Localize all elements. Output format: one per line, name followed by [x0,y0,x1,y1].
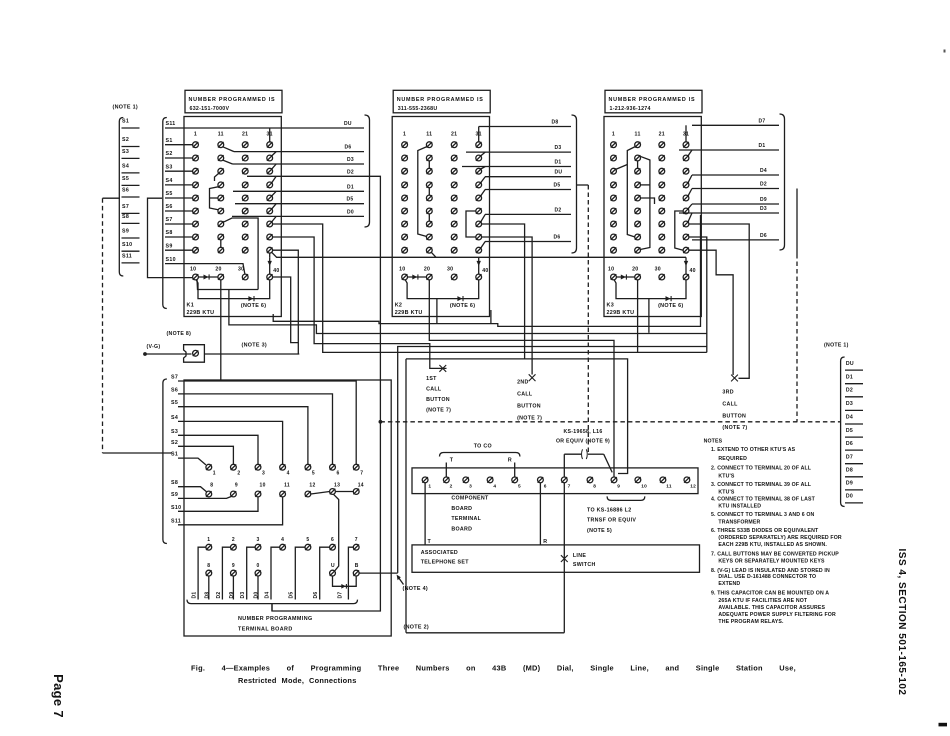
K3 229B KTU outline box [604,117,701,317]
program bus from K1 D2 lead down to underbrace junction [272,176,380,611]
programming board terminals row 8-14 [206,489,359,497]
svg-text:BUTTON: BUTTON [722,413,746,419]
programming board left brace [163,379,167,544]
K1 digit lead lines to brace [165,121,364,216]
svg-text:11: 11 [284,483,290,489]
svg-text:(V-G): (V-G) [147,344,161,350]
K1 row label brace [163,118,167,309]
svg-text:5: 5 [312,471,315,477]
svg-text:D3: D3 [555,145,562,151]
svg-text:S9: S9 [171,492,178,498]
svg-text:21: 21 [242,132,248,138]
svg-text:S8: S8 [166,230,173,236]
svg-text:S3: S3 [171,429,178,435]
svg-text:D2: D2 [555,207,562,213]
svg-text:30: 30 [447,266,453,272]
svg-text:S6: S6 [171,387,178,393]
K3 strap S6 col4 detour to S9 col4 [675,211,683,250]
K2 strap tall bracket col2 rows S1-S8 [418,147,427,237]
wire T from terminal 1 to telephone set [424,483,426,545]
svg-text:D2: D2 [216,592,222,599]
svg-text:2. CONNECT TO TERMINAL 20 OF A: 2. CONNECT TO TERMINAL 20 OF ALL [711,465,812,471]
K1 229B KTU outline box [184,117,281,317]
label 2ND CALL BUTTON NOTE 7 [517,380,542,422]
svg-text:S7: S7 [171,375,178,381]
left solid bus from K1 brace to K1 terminal 10 [148,198,193,277]
line switch X [561,555,568,562]
svg-text:D6: D6 [846,441,853,447]
svg-text:4: 4 [281,537,284,543]
svg-text:D8: D8 [846,468,853,474]
wire K1 terminal 20 down to number programming board [220,280,222,380]
K3 strap S2-S3 col2 vertical [637,161,639,168]
svg-text:THE PROGRAM RELAYS.: THE PROGRAM RELAYS. [718,619,784,625]
programming board S row labels [171,375,181,525]
svg-text:D0: D0 [254,592,260,599]
svg-text:10: 10 [641,484,647,490]
svg-text:14: 14 [358,483,364,489]
svg-text:7: 7 [360,471,363,477]
svg-text:8: 8 [207,563,210,569]
V-G lead with NOTE 8 connector block [143,331,299,362]
K2 strap S6-S7 col2 vertical [428,214,430,221]
svg-text:(NOTE 1): (NOTE 1) [113,105,138,111]
svg-text:DU: DU [344,121,352,127]
svg-text:Fig. 4—Examples of Programming: Fig. 4—Examples of Programming Three Num… [191,664,796,673]
svg-text:2: 2 [237,471,240,477]
wire daisy chain bus upper to K3 S7 col4 [273,215,700,326]
label 1ST CALL BUTTON NOTE 7 [426,376,451,414]
K3 NOTE 6 diode loop from terminal 10 to 40 [614,280,686,299]
K1 bottom terminals 10 20 30 40 [193,274,273,280]
svg-text:3: 3 [257,537,260,543]
svg-text:1. EXTEND TO OTHER KTU'S AS: 1. EXTEND TO OTHER KTU'S AS [711,447,796,453]
svg-text:8: 8 [593,484,596,490]
svg-text:D3: D3 [846,401,853,407]
svg-text:D7: D7 [846,454,853,460]
left dashed bus from S list to S1 wire [103,198,173,453]
svg-text:K1: K1 [187,303,195,309]
KTU unit K1 with programmed number 632-151-7000 [165,90,370,316]
svg-text:7: 7 [568,484,571,490]
K1 wire S9 col4 down to terminal 40 [269,253,271,257]
svg-text:4: 4 [287,471,290,477]
svg-text:S3: S3 [166,164,173,170]
svg-text:D3: D3 [760,206,767,212]
K1 wire terminal 10 to bus at 289.5 [197,280,258,290]
svg-text:265A KTU IF FACILITIES ARE NOT: 265A KTU IF FACILITIES ARE NOT [718,598,808,604]
svg-text:TERMINAL: TERMINAL [451,516,481,522]
svg-text:(NOTE 3): (NOTE 3) [242,343,267,349]
svg-text:D6: D6 [313,592,319,599]
svg-text:D9: D9 [760,197,767,203]
svg-text:S10: S10 [166,257,176,263]
svg-text:0: 0 [257,563,260,569]
programming board terminals row 1-7 [206,464,363,476]
svg-text:11: 11 [218,132,224,138]
svg-text:21: 21 [659,132,665,138]
svg-text:D4: D4 [846,415,853,421]
K1 strap S3 col2 elbow down [215,173,219,181]
svg-text:REQUIRED: REQUIRED [718,456,747,462]
long wire S9 col4 K1 across K2 to K3 terminal 40 arrows [272,252,686,257]
svg-text:NUMBER PROGRAMMING: NUMBER PROGRAMMING [238,616,313,622]
svg-text:K3: K3 [607,303,615,309]
svg-text:(NOTE 7): (NOTE 7) [517,415,542,421]
svg-text:S10: S10 [122,242,132,248]
K2 terminal grid 4 x 9 [402,142,482,253]
svg-text:S6: S6 [166,204,173,210]
K2 digit lead right brace [572,115,577,253]
svg-text:5: 5 [518,484,521,490]
svg-text:D1: D1 [555,160,562,166]
svg-text:TRANSFORMER: TRANSFORMER [718,519,760,525]
wire K3 S8 col4 down to B lead bus [689,237,707,352]
svg-text:KEYS OR SEPARATELY MOUNTED KEY: KEYS OR SEPARATELY MOUNTED KEYS [718,558,825,564]
svg-text:8: 8 [210,483,213,489]
svg-text:D0: D0 [846,494,853,500]
S8-S11 wires to terminals 8-11 [178,487,283,525]
wire K3 NOTE 6 loop descender to daisy bus [648,298,650,333]
svg-text:D2: D2 [760,182,767,188]
svg-text:(NOTE 6): (NOTE 6) [241,303,266,309]
svg-text:21: 21 [451,132,457,138]
svg-text:TO KS-16886 L2: TO KS-16886 L2 [587,508,631,514]
K3 wire terminal 40 riser with arrow from program line [685,257,687,274]
svg-text:R: R [508,457,512,463]
svg-text:311-555-2368U: 311-555-2368U [398,106,438,112]
svg-text:(NOTE 2): (NOTE 2) [404,625,429,631]
dashed capacitor supply line from K2 lead area NOTE 9 [576,184,588,186]
K3 digit lead right brace [780,114,785,250]
K1 strap bracket col2 rows S4-S6 [210,187,219,210]
svg-text:S10: S10 [171,505,181,511]
svg-text:(ORDERED SEPARATELY) ARE REQUI: (ORDERED SEPARATELY) ARE REQUIRED FOR [718,535,842,541]
K2 digit lead lines to brace [462,120,571,242]
svg-text:(NOTE 6): (NOTE 6) [450,303,475,309]
K2 bottom terminals 10 20 30 40 [402,274,482,280]
K1 digit lead right brace [365,115,370,227]
svg-text:D1: D1 [759,143,766,149]
svg-text:EACH 229B KTU, INSTALLED AS SH: EACH 229B KTU, INSTALLED AS SHOWN. [718,542,827,548]
svg-text:12: 12 [690,484,696,490]
wire NOTE 2 line under telephone set [406,632,564,634]
underbrace terminals 9-10 to transformer [607,496,645,500]
svg-text:S7: S7 [122,204,129,210]
svg-text:D2: D2 [846,388,853,394]
svg-text:D7: D7 [759,118,766,124]
K3 bottom terminals 10 20 30 40 [611,274,689,280]
wire line switch from terminal 7 through telephone set [563,483,565,633]
svg-text:ISS 4, SECTION 501-165-102: ISS 4, SECTION 501-165-102 [896,549,907,696]
svg-text:(NOTE 1): (NOTE 1) [824,342,849,348]
K1 terminal grid 4 x 9 [193,142,273,253]
wire from B terminal exits right [359,572,360,574]
svg-text:BOARD: BOARD [451,506,472,512]
svg-text:B: B [355,563,359,569]
svg-text:632-151-7000V: 632-151-7000V [190,106,230,112]
wire K2 right edge descender to daisy bus [490,310,492,324]
svg-text:D7: D7 [338,592,344,599]
rotated digit designations D1 D8 D2 D9 D3 D0 D4 D5 D6 D7 [192,592,344,599]
right DU-D0 designation list with NOTE 1 [824,342,863,506]
K3 strap col4 risers to digit leads [686,125,692,222]
svg-text:5. CONNECT TO TERMINAL 3 AND 6: 5. CONNECT TO TERMINAL 3 AND 6 ON [711,512,815,518]
svg-text:S11: S11 [122,254,132,260]
svg-text:40: 40 [482,268,488,274]
K1 strap S2 col2 diagonal to D3 lead [223,160,233,164]
wire daisy chain bus terminal 20 row stairs to K3 [229,290,707,334]
svg-text:20: 20 [215,266,221,272]
svg-text:30: 30 [655,266,661,272]
wire K1 S7 col4 to terminal-39 bus [273,224,707,352]
svg-text:KS-19658, L16: KS-19658, L16 [563,429,602,435]
dashed extension line to NOTE 1 column [380,421,840,423]
svg-text:NUMBER PROGRAMMED IS: NUMBER PROGRAMMED IS [189,97,276,103]
svg-text:12: 12 [309,483,315,489]
K1 S10 wire to terminal 30 [165,264,245,274]
svg-text:3RD: 3RD [722,390,734,396]
capacitor KS-19658 between terminal 7 riser and terminal 9 [564,449,612,477]
svg-text:D0: D0 [347,209,354,215]
K1 wire terminal 40 riser with arrow from program line [269,257,271,274]
svg-text:8. (V-G) LEAD IS INSULATED AND: 8. (V-G) LEAD IS INSULATED AND STORED IN [711,568,830,574]
svg-text:(NOTE 7): (NOTE 7) [426,408,451,414]
svg-text:TO CO: TO CO [474,444,492,450]
top right speck [944,50,946,53]
svg-text:6: 6 [331,537,334,543]
svg-text:DIAL. USE D-161488 CONNECTOR T: DIAL. USE D-161488 CONNECTOR TO [718,574,816,580]
K3 diode between terminals 10 and 20 [616,276,634,278]
svg-text:11: 11 [426,132,432,138]
svg-text:NUMBER PROGRAMMED IS: NUMBER PROGRAMMED IS [397,97,484,103]
svg-text:ADEQUATE POWER SUPPLY FILTERIN: ADEQUATE POWER SUPPLY FILTERING FOR [718,612,836,618]
svg-text:1-212-936-1274: 1-212-936-1274 [610,106,651,112]
svg-text:S11: S11 [166,121,176,127]
U to B diode wire [333,576,357,586]
svg-text:9: 9 [617,484,620,490]
svg-text:11: 11 [666,484,672,490]
svg-text:BUTTON: BUTTON [517,403,541,409]
K2 229B KTU outline box [392,117,489,317]
wire K2 S7 col4 down to bus 358.9 [482,224,525,359]
svg-text:D1: D1 [347,184,354,190]
svg-text:D6: D6 [345,145,352,151]
K1 row wire S8 [165,236,193,238]
svg-text:1: 1 [213,471,216,477]
svg-text:S7: S7 [166,217,173,223]
wire K2 S8 col4 to second call button [482,237,532,375]
KTU unit K2 with programmed number 311-555-2368 [392,90,576,316]
svg-text:TELEPHONE SET: TELEPHONE SET [421,559,470,565]
K2 strap S6 col4 detour to S8 col4 [466,211,476,237]
svg-text:3: 3 [262,471,265,477]
svg-text:13: 13 [334,483,340,489]
svg-text:20: 20 [424,266,430,272]
svg-text:T: T [428,539,432,545]
K1 title box NUMBER PROGRAMMED IS 632-151-7000V [185,90,282,113]
svg-text:2: 2 [450,484,453,490]
svg-text:9: 9 [235,483,238,489]
K1 strap S1 col2 diagonal to D6 lead [223,147,234,152]
svg-text:S5: S5 [166,191,173,197]
svg-text:5: 5 [306,537,309,543]
svg-text:S9: S9 [122,229,129,235]
wire B lead from programming board [360,572,398,574]
svg-text:6: 6 [337,471,340,477]
svg-text:KTU INSTALLED: KTU INSTALLED [718,504,761,510]
K2 strap S4-S5 col2 vertical [428,188,430,195]
svg-text:D9: D9 [229,592,235,599]
component board terminals 1-12 [422,477,696,490]
svg-text:1: 1 [403,132,406,138]
svg-text:2ND: 2ND [517,380,529,386]
svg-text:S11: S11 [171,518,181,524]
K1 strap S8-S9 col2 vertical [220,240,222,247]
svg-text:7: 7 [355,537,358,543]
wire terminal 13 down to U terminal [334,494,339,570]
S1-S7 nested wires to terminals 1-7 [178,381,356,465]
KTU unit K3 with programmed number 1-212-936-1274 [604,90,785,316]
svg-text:1: 1 [194,132,197,138]
svg-text:AVAILABLE. THIS CAPACITOR ASSU: AVAILABLE. THIS CAPACITOR ASSURES [718,605,825,611]
svg-text:S1: S1 [171,452,178,458]
svg-text:KTU'S: KTU'S [718,489,734,495]
K2 NOTE 6 diode loop from terminal 10 to 40 [405,280,479,299]
svg-text:1: 1 [612,132,615,138]
svg-text:D3: D3 [240,592,246,599]
K3 strap second bracket col2 rows S2-S9 [640,156,650,249]
svg-text:S1: S1 [122,119,129,125]
K2 wire terminal 40 riser with arrow from program line [478,257,480,274]
svg-text:(NOTE 5): (NOTE 5) [587,528,612,534]
digit hook wires from terminals 1-7 down to D designations [198,547,353,599]
svg-text:S6: S6 [122,188,129,194]
associated telephone set outline [412,545,700,572]
bottom right printer mark [939,723,948,727]
svg-text:D1: D1 [846,374,853,380]
svg-text:3: 3 [469,484,472,490]
svg-text:S4: S4 [122,164,129,170]
svg-text:11: 11 [635,132,641,138]
K2 diode between terminals 10 and 20 [408,276,427,278]
svg-text:D5: D5 [554,183,561,189]
svg-text:229B KTU: 229B KTU [607,310,635,316]
svg-text:40: 40 [273,268,279,274]
K1 row wire S3 [165,170,193,172]
K1 row wire S6 [165,210,193,212]
svg-text:1ST: 1ST [426,376,437,382]
svg-text:D5: D5 [347,197,354,203]
svg-text:U: U [331,563,335,569]
svg-text:10: 10 [399,266,405,272]
K2 strap col4 risers to digit leads [479,127,486,249]
left S list brace [119,118,123,277]
K2 strap S9 col2 diagonal to long line [431,252,436,257]
K1 diode between terminals 10 and 20 [198,276,218,278]
svg-text:S9: S9 [166,243,173,249]
svg-text:D5: D5 [846,428,853,434]
svg-text:D8: D8 [204,592,210,599]
svg-text:10: 10 [260,483,266,489]
wire terminal 12 to 13 to 14 [311,492,330,495]
svg-text:10: 10 [190,266,196,272]
svg-text:4: 4 [493,484,496,490]
K1 row wire S2 [165,157,193,159]
svg-text:6: 6 [544,484,547,490]
svg-text:CALL: CALL [517,392,533,398]
svg-text:S8: S8 [171,480,178,486]
svg-text:D8: D8 [552,120,559,126]
K3 strap bracket col2 rows S1-S8 [627,147,635,238]
svg-text:ASSOCIATED: ASSOCIATED [421,550,458,556]
svg-text:S3: S3 [122,149,129,155]
svg-text:(NOTE 7): (NOTE 7) [722,425,747,431]
svg-text:NOTES: NOTES [704,439,723,445]
wire K3 S7 col4 to third call button right leg [689,224,749,378]
K1 row wire S4 [165,184,193,186]
underbrace for digit designations with center tail [187,600,358,604]
svg-text:40: 40 [690,268,696,274]
svg-text:TRNSF OR EQUIV: TRNSF OR EQUIV [587,518,636,524]
wire K1 terminal 40 to V-G lead [273,277,299,343]
wire bus 358.9 to component board terminal 9 elbow [406,359,628,474]
svg-text:7. CALL BUTTONS MAY BE CONVERT: 7. CALL BUTTONS MAY BE CONVERTED PICKUP [711,551,839,557]
svg-text:D4: D4 [760,168,767,174]
svg-text:DU: DU [846,361,854,367]
svg-text:D4: D4 [264,592,270,599]
junction dot on program bus [379,420,383,424]
wire K1 S9 col4 descender to V-G lead [273,250,299,354]
svg-text:(NOTE 6): (NOTE 6) [658,303,683,309]
K1 strap col4 risers to digit leads [270,128,277,222]
svg-text:NUMBER PROGRAMMED IS: NUMBER PROGRAMMED IS [609,97,696,103]
K2 title box NUMBER PROGRAMMED IS 311-555-2368U [393,90,490,113]
svg-text:S4: S4 [166,178,173,184]
svg-text:K2: K2 [395,303,403,309]
label COMPONENT BOARD TERMINAL BOARD [451,496,489,533]
svg-text:S2: S2 [122,137,129,143]
wire bus to B lead vertical of telephone set [398,347,707,573]
svg-text:20: 20 [632,266,638,272]
K3 strap S5 col2 elbow [641,198,655,204]
K2 strap S2-S3 col2 vertical [428,161,430,168]
svg-text:DU: DU [555,170,563,176]
svg-text:CALL: CALL [722,401,738,407]
svg-text:1: 1 [207,537,210,543]
svg-text:S2: S2 [171,440,178,446]
wire K3 S9 col4 to third call button left leg [689,250,733,375]
svg-text:EXTEND: EXTEND [718,581,740,587]
label NOTE 4 with arrow [397,575,428,592]
svg-text:1: 1 [428,484,431,490]
svg-text:TERMINAL BOARD: TERMINAL BOARD [238,627,293,633]
svg-text:S4: S4 [171,415,178,421]
label TO KS-16886 L2 TRNSF OR EQUIV NOTE 5 [587,508,636,535]
svg-text:D1: D1 [192,592,198,599]
wire R from terminal 6 to telephone set [539,483,541,545]
K3 title box NUMBER PROGRAMMED IS 1-212-936-1274 [605,90,702,113]
left S1-S11 designation list with NOTE 1 [113,105,140,277]
wire K1 S8 col4 to first call button [273,237,447,368]
programming board terminals row 8-14 labels [210,483,364,489]
svg-text:S5: S5 [122,176,129,182]
svg-text:10: 10 [608,266,614,272]
svg-text:BOARD: BOARD [451,527,472,533]
svg-text:Restricted Mode, Connections: Restricted Mode, Connections [238,676,357,685]
dashed vertical from K3 D2 lead region [796,189,798,255]
svg-text:LINE: LINE [573,553,586,559]
